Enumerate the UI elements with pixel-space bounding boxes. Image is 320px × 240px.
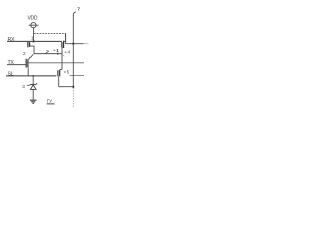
label 1 with dash (near Q4) [54,49,56,51]
wire mid horizontal (Q2/Q4 source bus) [34,53,62,55]
transistor Q5 channel bar [59,70,61,76]
junction trunk/Q4 drain [72,43,74,45]
wire RX horizontal [7,40,62,42]
svg-text:4: 4 [68,49,71,54]
transistor Q2 channel bar [29,42,31,47]
transistor Q1 channel bar [27,59,29,67]
wire SL stub through trunk [70,75,85,77]
wire fade tail right of trunk [84,43,89,45]
antenna trunk vertical [72,15,74,88]
leader squiggle on source wire [62,55,64,57]
label 4 with dash [65,51,67,53]
wire TX horizontal [7,64,26,66]
diode D3 triangle [31,85,37,90]
junction VDD/RX [33,40,35,42]
transistor Q5 gate bar [57,70,59,76]
wire Q4 drain down and right to trunk [66,33,84,43]
leader dash above tick [46,49,48,51]
wire SL down to diode [32,76,34,84]
zener tick left [28,84,31,85]
junction diode / SL [32,75,34,77]
wire dashed from VDD column to Q4 drain (top horizontal) [34,32,66,34]
svg-text:3: 3 [22,84,25,89]
svg-text:VDD: VDD [28,16,38,22]
svg-text:SL: SL [8,71,14,77]
wire Q5 drain corner [60,69,62,71]
wire Q4 drain corner [64,33,66,41]
wire Q1 source down to SL line [27,67,29,76]
wire bottom horizontal to trunk [59,86,74,88]
wire Q1 drain bus (horizontal to trunk) [28,62,84,64]
svg-text:5: 5 [67,69,70,74]
svg-text:7: 7 [77,6,80,12]
junction trunk/bottom wire [72,86,74,88]
wire Q2 source to mid line [30,46,34,54]
ground symbol [30,100,37,103]
wire diode to ground [32,89,34,100]
trunk top hook [73,12,76,16]
transistor Q4 channel bar [63,41,65,48]
svg-text:1: 1 [31,35,34,40]
caption underline [47,103,55,105]
svg-text:1: 1 [56,48,59,53]
svg-text:2: 2 [23,51,26,56]
transistor Q4 gate bar [61,42,63,48]
power supply terminal circle (VDD) [29,23,39,28]
wire VDD down to RX line [33,28,35,42]
wire SL horizontal [6,75,56,77]
leader tick on mid line [46,51,49,54]
junction on mid line [57,53,59,55]
wire squiggle H3 corner to Q1 drain [29,54,34,59]
wire Q5 source down [58,76,60,86]
diode D3 cathode bar (zener) [30,83,36,85]
label 5 with dash [64,71,66,73]
zener tick right [35,83,38,84]
wire Q4 source down [62,47,64,69]
svg-text:ГУ: ГУ [47,99,52,104]
transistor Q1 gate bar [25,59,27,68]
transistor Q2 gate bar [27,42,29,48]
svg-text:RX: RX [8,37,15,43]
